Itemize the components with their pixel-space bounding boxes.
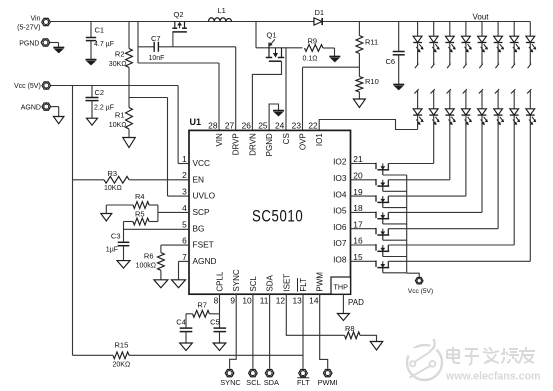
svg-text:12: 12 [276,296,286,306]
svg-text:17: 17 [353,219,363,229]
svg-text:7: 7 [182,252,187,262]
svg-text:AGND: AGND [21,105,41,112]
svg-text:R9: R9 [308,37,318,46]
svg-text:FSET: FSET [193,240,214,250]
svg-text:PGND: PGND [19,41,39,48]
svg-text:100kΩ: 100kΩ [136,263,156,270]
svg-text:SCL: SCL [249,275,258,291]
svg-text:IO2: IO2 [333,157,347,167]
svg-text:R10: R10 [365,77,379,86]
svg-text:R3: R3 [108,169,118,178]
svg-text:R11: R11 [365,38,378,47]
svg-text:R8: R8 [345,324,355,333]
svg-text:R4: R4 [135,192,145,201]
svg-text:PGND: PGND [265,133,274,156]
svg-text:SYNC: SYNC [232,269,241,291]
svg-text:D1: D1 [315,8,325,17]
svg-text:C1: C1 [95,26,105,35]
svg-text:10: 10 [242,296,252,306]
svg-text:13: 13 [292,296,302,306]
svg-text:PWMI: PWMI [318,378,338,387]
svg-text:5: 5 [182,219,187,229]
svg-text:DRVN: DRVN [248,133,257,156]
svg-text:SDA: SDA [264,378,279,387]
svg-text:PAD: PAD [348,298,364,307]
svg-text:3: 3 [182,187,187,197]
svg-text:SCP: SCP [193,207,211,217]
svg-text:CS: CS [282,133,291,144]
svg-text:6: 6 [182,236,187,246]
svg-text:14: 14 [309,296,319,306]
svg-text:27: 27 [225,121,235,131]
svg-text:THP: THP [334,283,349,292]
svg-text:Q1: Q1 [267,31,277,40]
svg-text:0.1Ω: 0.1Ω [303,56,318,63]
svg-text:15: 15 [353,252,363,262]
svg-text:28: 28 [208,121,218,131]
svg-text:IO6: IO6 [333,222,347,232]
svg-text:VIN: VIN [215,133,224,147]
svg-text:C3: C3 [111,232,121,241]
svg-text:11: 11 [260,296,269,306]
svg-text:BG: BG [193,223,205,233]
svg-text:OVP: OVP [299,133,308,150]
svg-text:24: 24 [275,121,285,131]
svg-text:IO4: IO4 [333,189,347,199]
svg-text:R2: R2 [115,49,125,58]
svg-text:20: 20 [353,171,363,181]
svg-text:C7: C7 [151,34,161,43]
svg-text:18: 18 [353,203,363,213]
svg-text:SYNC: SYNC [220,378,241,387]
svg-text:2: 2 [182,170,187,180]
svg-text:EN: EN [193,174,205,184]
svg-text:Vin: Vin [31,15,41,22]
svg-text:FLT: FLT [299,278,308,292]
svg-text:IO5: IO5 [333,206,347,216]
svg-text:PWM: PWM [316,272,325,292]
svg-text:(5-27V): (5-27V) [17,25,40,32]
svg-text:Vcc (5V): Vcc (5V) [408,288,433,295]
svg-text:SCL: SCL [246,378,260,387]
svg-text:R15: R15 [115,341,129,350]
svg-text:16: 16 [353,236,363,246]
svg-text:10nF: 10nF [149,55,165,62]
svg-text:22: 22 [308,121,318,131]
svg-text:2.2 µF: 2.2 µF [94,105,114,112]
svg-text:R7: R7 [197,301,207,310]
svg-text:C4: C4 [176,317,186,326]
svg-text:19: 19 [353,187,363,197]
svg-text:21: 21 [353,154,363,164]
svg-text:AGND: AGND [193,256,217,266]
svg-text:30KΩ: 30KΩ [109,61,127,68]
svg-text:R6: R6 [144,252,154,261]
svg-text:Q2: Q2 [174,10,184,19]
svg-text:C5: C5 [210,317,220,326]
svg-text:VCC: VCC [193,158,211,168]
svg-text:U1: U1 [190,117,202,127]
svg-text:SC5010: SC5010 [252,207,303,226]
svg-text:Vout: Vout [473,13,490,22]
svg-text:FLT: FLT [297,378,310,387]
svg-text:8: 8 [214,296,219,306]
svg-text:www.elecfans.com: www.elecfans.com [445,371,540,383]
svg-text:4.7 µF: 4.7 µF [94,41,114,48]
svg-text:9: 9 [230,296,235,306]
svg-text:26: 26 [242,121,252,131]
svg-text:25: 25 [258,121,268,131]
svg-text:23: 23 [292,121,302,131]
svg-text:R5: R5 [135,210,145,219]
svg-text:CPLL: CPLL [216,271,225,292]
svg-text:Vcc (5V): Vcc (5V) [14,83,41,90]
svg-text:C6: C6 [386,57,396,66]
svg-text:L1: L1 [218,6,226,15]
svg-text:10KΩ: 10KΩ [109,122,127,129]
svg-text:1µF: 1µF [106,246,118,253]
svg-text:IO8: IO8 [333,255,347,265]
svg-text:DRVP: DRVP [232,133,241,155]
svg-text:ISET: ISET [282,274,291,292]
svg-text:IO7: IO7 [333,238,347,248]
svg-text:UVLO: UVLO [193,191,216,201]
svg-text:IO1: IO1 [315,133,324,146]
svg-text:4: 4 [182,203,187,213]
svg-text:IO3: IO3 [333,173,347,183]
svg-text:20KΩ: 20KΩ [113,362,131,369]
svg-text:R1: R1 [115,111,125,120]
svg-text:1: 1 [182,154,187,164]
svg-text:C2: C2 [95,88,105,97]
svg-text:10KΩ: 10KΩ [104,185,122,192]
svg-text:SDA: SDA [266,274,275,291]
